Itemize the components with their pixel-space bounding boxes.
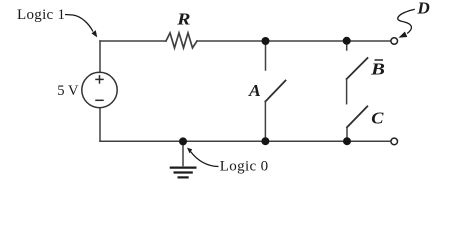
svg-text:R: R (176, 10, 190, 29)
svg-text:B: B (370, 60, 385, 79)
svg-text:A: A (248, 81, 261, 100)
svg-text:D: D (416, 0, 429, 17)
svg-text:Logic 1: Logic 1 (17, 7, 65, 23)
svg-text:Logic 0: Logic 0 (220, 159, 269, 175)
svg-text:5 V: 5 V (57, 83, 79, 99)
svg-text:C: C (371, 108, 384, 127)
